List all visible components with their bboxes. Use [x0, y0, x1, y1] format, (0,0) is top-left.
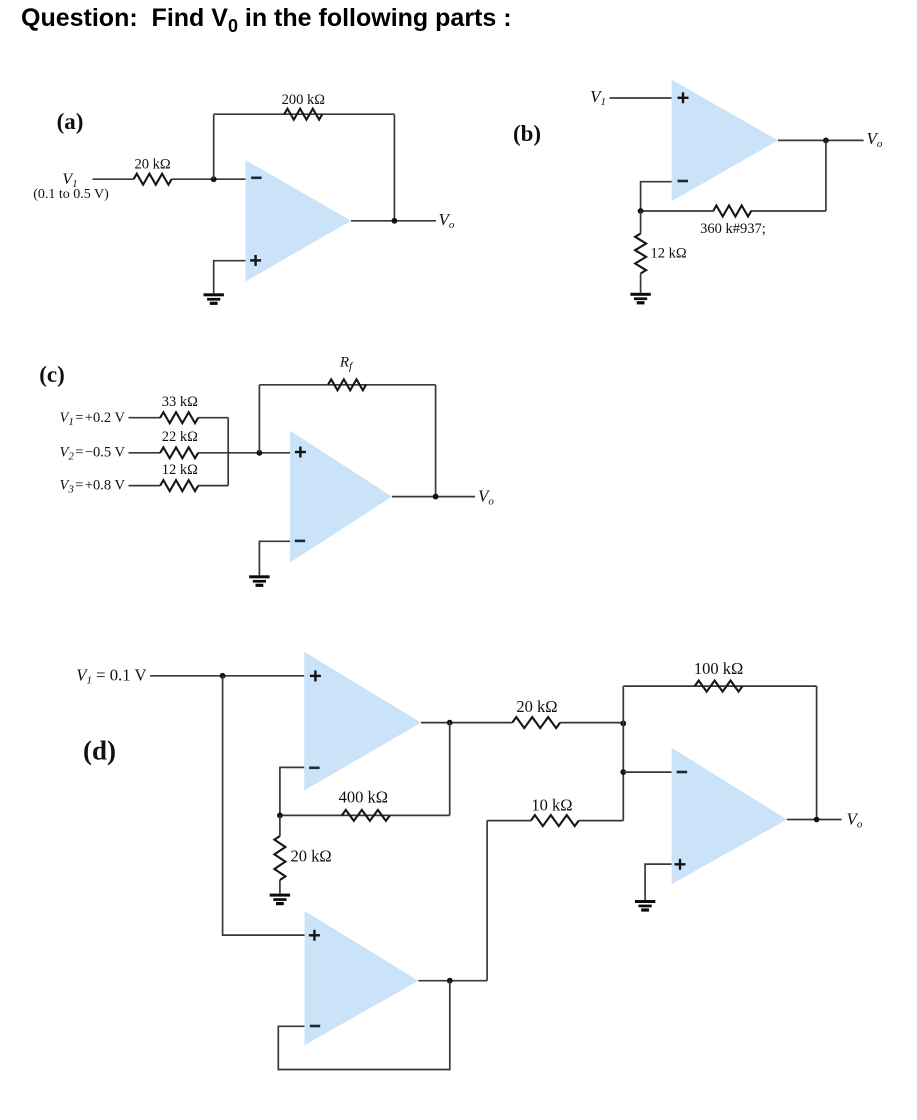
wire V3 to R 12k (c): [129, 485, 161, 487]
junction output/feedback (b): [823, 138, 829, 144]
wire feedback bottom left (b): [641, 210, 714, 212]
plus sign non-inverting input (c): [295, 447, 306, 458]
op-amp U1 (c): [290, 431, 392, 563]
svg-text:(d): (d): [83, 736, 116, 766]
junction bus top (d): [620, 721, 626, 727]
junction output/feedback (a): [392, 218, 398, 224]
ground (c): [249, 575, 269, 587]
wire V2 to R 22k (c): [129, 452, 161, 454]
junction op-amp A output (d): [447, 720, 453, 726]
wire output (b): [778, 139, 864, 141]
wire feedback right drop (a): [393, 114, 395, 221]
wire feedback riser left (a): [213, 114, 215, 179]
wire R 33k to bus (c): [198, 417, 228, 419]
minus sign inverting input (a): [251, 177, 262, 180]
wire V1 to R 20k (a): [93, 178, 134, 180]
bus wire op-amp C input (d): [622, 686, 624, 821]
wire op-amp C non-inverting to ground (d): [645, 864, 672, 900]
junction op-amp B output (d): [447, 978, 453, 984]
wire feedback top (a): [214, 113, 395, 115]
junction V1 split (d): [220, 673, 226, 679]
wire feedback top (c): [259, 384, 435, 386]
ground op-amp A branch (d): [270, 894, 290, 906]
svg-text:22 kΩ: 22 kΩ: [162, 429, 198, 445]
svg-text:(a): (a): [57, 109, 84, 134]
minus sign inverting input (b): [678, 180, 689, 183]
wire V1 to R 33k (c): [129, 417, 161, 419]
svg-text:360 k360 kΩ#937;: 360 k360 kΩ#937;: [700, 221, 766, 237]
resistor 200 kOhm (a): [284, 109, 322, 120]
resistor 20 kOhm shunt (d): [274, 836, 285, 880]
resistor 12 kOhm (b): [635, 234, 646, 274]
ground (b): [630, 293, 650, 305]
junction output/feedback op-amp C (d): [814, 817, 820, 823]
wire riser to 10k line (d): [486, 821, 488, 981]
svg-text:Question: Find V0 in the foll: Question: Find V0 in the following parts…: [21, 4, 512, 36]
plus sign op-amp C (d): [675, 859, 686, 870]
op-amp B (d): [305, 911, 419, 1045]
resistor Rf (c): [328, 379, 366, 390]
plus sign op-amp B (d): [309, 930, 320, 941]
svg-text:(0.1 to 0.5 V): (0.1 to 0.5 V): [33, 187, 109, 202]
wire feedback riser (c): [258, 385, 260, 453]
wire R 20k to inverting input (a): [172, 178, 246, 180]
resistor 12 kOhm (c): [160, 480, 198, 491]
wire 10k line left (d): [487, 820, 531, 822]
wire non-inverting to ground (a): [214, 261, 246, 294]
svg-text:20 kΩ: 20 kΩ: [516, 697, 557, 716]
junction feedback tap (c): [257, 450, 263, 456]
op-amp A (d): [304, 652, 421, 791]
minus sign op-amp B (d): [310, 1025, 320, 1028]
plus sign non-inverting input (b): [678, 92, 689, 103]
junction bus inverting (d): [620, 769, 626, 775]
resistor 100 kOhm (d): [695, 681, 743, 692]
wire V1 riser down to op-amp B (d): [223, 676, 305, 935]
svg-text:400 kΩ: 400 kΩ: [339, 788, 388, 807]
wire node to R 12k (b): [640, 211, 642, 234]
wire output (a): [351, 220, 436, 222]
svg-text:33 kΩ: 33 kΩ: [162, 394, 198, 410]
minus sign op-amp A (d): [309, 766, 320, 769]
resistor 400 kOhm (d): [342, 810, 390, 821]
plus sign non-inverting input (a): [250, 255, 261, 266]
wire node to R 20k shunt (d): [279, 815, 281, 836]
wire V1 to non-inverting input (b): [610, 97, 672, 99]
op-amp C (d): [672, 748, 787, 885]
wire op-amp A feedback drop (d): [449, 723, 451, 816]
wire 100k feedback drop (d): [816, 686, 818, 819]
wire inverting to ground (c): [259, 541, 290, 575]
junction node b1 (b): [638, 208, 644, 214]
wire inverting input (b): [641, 182, 672, 211]
svg-text:100 kΩ: 100 kΩ: [694, 659, 743, 678]
minus sign inverting input (c): [295, 540, 305, 543]
wire R 12k to bus (c): [198, 485, 228, 487]
resistor 22 kOhm (c): [160, 447, 198, 458]
wire op-amp A inverting (d): [280, 767, 304, 815]
svg-text:10 kΩ: 10 kΩ: [531, 796, 572, 815]
svg-text:20 kΩ: 20 kΩ: [291, 847, 332, 866]
resistor 10 kOhm (d): [531, 815, 579, 826]
plus sign op-amp A (d): [310, 670, 321, 681]
wire output (c): [392, 496, 475, 498]
resistor 20 kOhm series (d): [512, 717, 560, 728]
wire bus to op-amp C inverting (d): [623, 771, 671, 773]
junction 400k/20k (d): [277, 813, 283, 819]
op-amp U1 (b): [672, 80, 778, 202]
wire op-amp C output (d): [787, 819, 842, 821]
svg-text:20 kΩ: 20 kΩ: [135, 157, 171, 173]
wire R 20k shunt to ground (d): [279, 880, 281, 894]
wire op-amp A output (d): [421, 722, 512, 724]
junction output/feedback (c): [433, 494, 439, 500]
svg-text:12 kΩ: 12 kΩ: [651, 246, 687, 262]
wire 10k line right to bus (d): [579, 820, 624, 822]
resistor 33 kOhm (c): [160, 412, 198, 423]
svg-text:(c): (c): [39, 362, 65, 387]
svg-text:12 kΩ: 12 kΩ: [162, 462, 198, 478]
wire op-amp B output (d): [418, 980, 487, 982]
wire V1 to op-amp A non-inverting (d): [150, 675, 304, 677]
minus sign op-amp C (d): [677, 771, 688, 774]
ground (a): [204, 293, 224, 305]
wire feedback drop (b): [825, 140, 827, 211]
wire R 20k to bus (d): [560, 722, 623, 724]
wire feedback right drop (c): [435, 385, 437, 497]
resistor 20 kOhm (a): [134, 174, 172, 185]
resistor 360 kOhm (b): [713, 206, 751, 217]
svg-text:200 kΩ: 200 kΩ: [282, 92, 326, 108]
wire 100k feedback top (d): [623, 685, 816, 687]
wire feedback bottom right (b): [751, 210, 826, 212]
op-amp U1 (a): [246, 160, 352, 282]
wire op-amp B feedback (d): [278, 981, 450, 1070]
ground op-amp C (d): [635, 900, 655, 912]
wire R 12k to ground (b): [640, 274, 642, 293]
junction at inverting input (a): [211, 176, 217, 182]
wire 400k line (d): [280, 814, 450, 816]
bus wire joining inputs (c): [227, 418, 229, 486]
svg-text:(b): (b): [513, 121, 541, 146]
wire R 22k to non-inverting input (c): [198, 452, 290, 454]
